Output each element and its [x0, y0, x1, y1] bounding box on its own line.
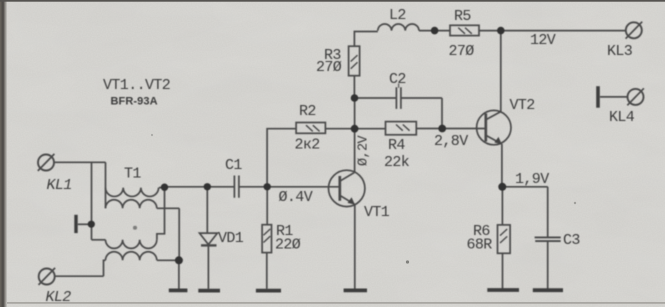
- svg-text:Ø.4V: Ø.4V: [279, 189, 313, 206]
- svg-text:T1: T1: [124, 166, 141, 183]
- svg-text:VT2: VT2: [510, 97, 535, 114]
- svg-text:C3: C3: [563, 232, 580, 249]
- svg-text:22Ø: 22Ø: [275, 237, 301, 254]
- svg-text:KL3: KL3: [607, 43, 633, 60]
- svg-text:R2: R2: [299, 103, 316, 120]
- svg-text:1,9V: 1,9V: [515, 171, 549, 188]
- svg-text:68R: 68R: [467, 237, 493, 254]
- svg-text:KL1: KL1: [47, 177, 72, 194]
- svg-text:BFR-93A: BFR-93A: [111, 96, 158, 108]
- svg-text:KL2: KL2: [46, 289, 72, 306]
- svg-text:2,8V: 2,8V: [434, 133, 468, 150]
- svg-text:C2: C2: [389, 71, 406, 88]
- svg-text:27Ø: 27Ø: [316, 59, 342, 76]
- svg-text:22k: 22k: [384, 154, 410, 171]
- svg-text:R4: R4: [388, 137, 405, 154]
- svg-text:Ø,2V: Ø,2V: [357, 134, 372, 166]
- svg-text:27Ø: 27Ø: [449, 43, 475, 60]
- svg-text:KL4: KL4: [609, 109, 635, 126]
- svg-text:VT1: VT1: [364, 204, 390, 221]
- svg-text:R5: R5: [454, 8, 471, 25]
- svg-text:C1: C1: [225, 157, 242, 174]
- svg-text:VT1..VT2: VT1..VT2: [103, 77, 170, 94]
- svg-text:12V: 12V: [530, 32, 556, 49]
- svg-text:L2: L2: [389, 7, 406, 24]
- svg-text:VD1: VD1: [218, 230, 244, 247]
- svg-text:2к2: 2к2: [295, 137, 320, 154]
